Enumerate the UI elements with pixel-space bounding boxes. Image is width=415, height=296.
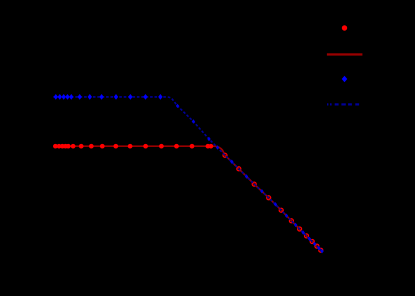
blue dashed curve line xyxy=(53,97,322,252)
legend red circle marker xyxy=(342,25,347,30)
red curve circle markers (flat part) xyxy=(53,144,213,149)
blue curve diamond markers (descent) xyxy=(176,104,324,254)
red curve open-circle markers (descent) xyxy=(223,153,323,252)
legend blue dashed line xyxy=(327,103,359,105)
blue curve diamond markers (flat part) xyxy=(54,94,163,100)
legend blue diamond marker xyxy=(342,76,348,83)
legend dark red solid line xyxy=(327,53,363,55)
red solid curve line xyxy=(53,146,322,252)
